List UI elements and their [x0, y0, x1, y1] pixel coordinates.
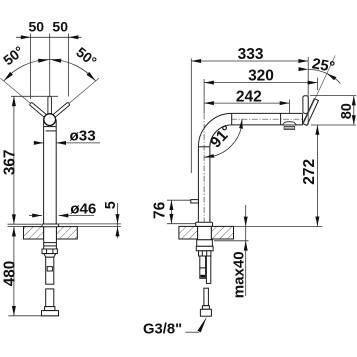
dimension max40 line	[245, 205, 247, 296]
lever right 50deg	[52, 102, 70, 118]
supply hose lower segment	[46, 289, 54, 307]
counter slab side left part	[179, 226, 198, 239]
shank section line 2	[44, 245, 57, 247]
arm bottom edge	[232, 124, 303, 126]
extension line 320 right x317	[317, 78, 319, 90]
mounting nut	[42, 249, 57, 254]
svg-text:367: 367	[2, 150, 19, 176]
G3/8 leader arrow	[198, 317, 207, 333]
arm joint line at bend end	[231, 113, 233, 125]
svg-text:333: 333	[238, 46, 264, 63]
dimension 480 line	[13, 227, 15, 316]
extension line 242 right	[289, 100, 291, 114]
25deg arc	[308, 69, 340, 83]
slab top extension right	[77, 226, 121, 228]
lever vertical	[48, 96, 52, 116]
hose A connector	[200, 268, 206, 278]
svg-text:272: 272	[301, 159, 318, 185]
arrow 80 bottom	[352, 115, 356, 125]
head axis line	[304, 56, 335, 123]
svg-text:G3/8": G3/8"	[143, 321, 182, 337]
arrow left of 50-50	[21, 35, 31, 39]
arrow 333 right	[298, 59, 308, 63]
side adapter row	[199, 251, 211, 256]
side mounting nut	[196, 246, 213, 251]
flange top extension line left	[8, 223, 42, 225]
arrow arc top-left	[38, 59, 49, 63]
arrow 76 top	[169, 200, 173, 210]
flange top extension right	[59, 223, 121, 225]
countertop slab left part	[24, 227, 44, 239]
arrow 320 left	[204, 81, 214, 85]
head stick vertical	[303, 96, 308, 114]
hose connector	[45, 307, 55, 311]
dimension o46 line left	[29, 215, 42, 217]
nut facet line 2	[52, 249, 54, 254]
stick top extension line	[310, 95, 356, 97]
arrow 242 left	[204, 101, 214, 105]
head bottom extension line	[311, 124, 356, 126]
dimension 76 line	[170, 200, 172, 224]
outlet plate line	[285, 127, 294, 129]
arrow 333 left	[191, 59, 201, 63]
hose end extension line	[8, 315, 58, 317]
countertop slab right part	[56, 227, 77, 239]
head joint line on arm	[280, 113, 282, 125]
arrow 367 bottom	[12, 214, 16, 224]
outlet dome	[283, 122, 297, 125]
svg-text:50: 50	[29, 19, 45, 35]
hose connector box front	[47, 267, 52, 271]
extension line 333 left	[190, 58, 192, 173]
arrow o33 right	[56, 141, 66, 145]
arrow o46 left	[32, 214, 42, 218]
dimension o46 line right	[59, 215, 94, 217]
arrow 272 top	[315, 125, 319, 135]
arrow 5 bottom	[116, 227, 120, 237]
shank through counter	[44, 225, 57, 250]
50-degree swing arc	[4, 60, 96, 81]
counter slab side right part	[211, 226, 233, 239]
dimension 367 line	[13, 96, 15, 224]
dimension 50-50 line	[16, 36, 82, 38]
svg-text:5: 5	[103, 201, 119, 209]
pivot ball joint	[44, 114, 56, 126]
side hose A (short, left)	[200, 256, 206, 268]
dimension 242 line	[204, 102, 289, 104]
dimension 5 line	[117, 203, 119, 238]
dimension o33 line	[37, 142, 44, 144]
arrow o33 left	[34, 141, 44, 145]
svg-text:480: 480	[2, 261, 19, 287]
svg-text:50: 50	[52, 19, 68, 35]
adapter facet 1	[201, 251, 203, 256]
wire: extension line left x30.6	[30, 34, 32, 100]
side hose B (long, right)	[206, 256, 210, 283]
arrow 5 top	[116, 214, 120, 224]
arrow 25 arc left	[298, 67, 308, 71]
supply hose upper segment	[46, 257, 54, 284]
arrow 480 top	[12, 227, 16, 237]
side shank below counter	[197, 240, 213, 247]
arm centerline	[231, 118, 306, 120]
wire: extension line right x68.6	[68, 34, 70, 97]
column side left edge	[197, 147, 199, 222]
bend inner curve	[210, 125, 232, 147]
lever top extension line	[11, 95, 58, 97]
arrow arc end-right	[87, 72, 96, 81]
hose A connector black band	[200, 275, 205, 278]
tab extension line	[167, 199, 191, 201]
extension line column axis up	[203, 79, 205, 113]
extension line 333 right x308	[307, 57, 309, 125]
arrow 272 bottom	[315, 217, 319, 227]
centerline vertical	[203, 113, 205, 228]
svg-text:76: 76	[151, 201, 168, 219]
column joint line 1	[44, 126, 57, 128]
arm end joint	[302, 113, 304, 125]
arrow right of 50-50	[69, 35, 79, 39]
arrow 25 arc right	[327, 74, 337, 81]
dimension 333 line	[191, 60, 308, 62]
svg-text:80: 80	[339, 103, 355, 119]
hose end nut	[42, 311, 59, 316]
wire: extension line center x49.7	[49, 34, 51, 96]
side hose lower	[204, 288, 209, 306]
arrow 242 right	[280, 101, 290, 105]
svg-text:320: 320	[248, 68, 274, 85]
arrow 91 bottom	[204, 154, 214, 158]
construction line lever right	[54, 78, 99, 116]
arrow 76 bottom	[169, 214, 173, 224]
arrow 80 top	[352, 96, 356, 106]
arrow max40 top	[244, 217, 248, 227]
76 bottom extension line	[167, 223, 196, 225]
dimension 272 line	[316, 125, 318, 226]
arrow o46 right	[59, 214, 69, 218]
arrow 320 right	[308, 81, 318, 85]
side hose end nut	[200, 309, 211, 316]
svg-text:max40: max40	[230, 251, 247, 298]
side shank through counter	[198, 226, 212, 239]
lever left 50deg	[29, 102, 47, 118]
faucet column front	[44, 120, 57, 224]
dimension 320 line	[204, 82, 317, 84]
svg-text:242: 242	[236, 88, 262, 105]
dimension o33 line right part	[56, 142, 100, 144]
arrow arc end-left	[4, 72, 13, 81]
side flange	[196, 222, 213, 226]
outlet plate	[284, 126, 295, 129]
arrow arc top-right	[50, 59, 61, 63]
91deg arc	[204, 119, 242, 157]
svg-text:ø46: ø46	[70, 200, 96, 217]
column side right edge	[209, 147, 211, 222]
arrow 367 top	[12, 96, 16, 106]
column joint line at bend start	[198, 146, 210, 148]
taper below nut	[44, 254, 56, 258]
dimension 80 line	[353, 96, 355, 125]
column joint line 2	[46, 130, 57, 132]
adapter facet 2	[206, 251, 208, 256]
arrow 480 bottom	[12, 306, 16, 316]
bend outer curve	[198, 113, 232, 146]
construction line lever left	[0, 78, 45, 116]
G3/8 leader line	[185, 331, 199, 333]
countertop reference line right	[234, 225, 323, 227]
arm top edge	[232, 112, 303, 114]
flange base plate	[42, 224, 59, 227]
side hose ring	[202, 306, 209, 310]
slab top extension line left	[8, 226, 24, 228]
side tab on column	[191, 200, 199, 203]
max40 bottom reference line	[214, 240, 249, 242]
arrow 91 top	[239, 120, 243, 129]
head angled cylinder	[303, 99, 319, 126]
shank section line 1	[44, 242, 57, 244]
arrow max40 bottom	[244, 241, 248, 251]
nut facet line 1	[46, 249, 48, 254]
svg-text:ø33: ø33	[70, 128, 96, 145]
